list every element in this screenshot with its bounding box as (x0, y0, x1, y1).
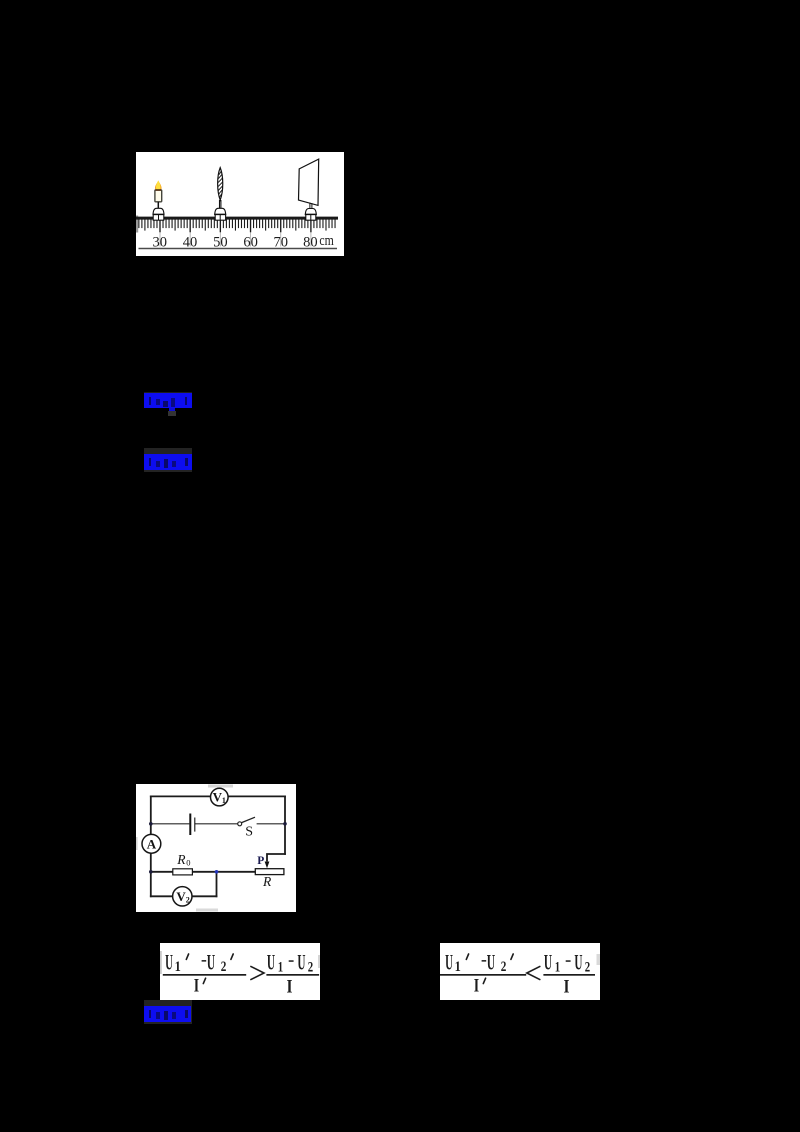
svg-text:1: 1 (222, 796, 226, 805)
svg-text:I: I (564, 977, 570, 998)
svg-text:P: P (257, 855, 264, 867)
svg-text:2: 2 (585, 959, 590, 975)
svg-text:A: A (147, 836, 157, 851)
svg-text:2: 2 (186, 895, 190, 904)
svg-text:U: U (544, 950, 552, 975)
svg-text:1: 1 (278, 959, 283, 975)
svg-text:1: 1 (175, 959, 181, 975)
svg-text:U: U (574, 950, 582, 975)
svg-text:I: I (474, 975, 479, 996)
svg-text:U: U (445, 949, 453, 974)
svg-text:U: U (207, 949, 215, 974)
svg-text:U: U (267, 950, 275, 975)
svg-text:1: 1 (455, 959, 461, 975)
svg-text:I: I (194, 975, 199, 996)
svg-text:2: 2 (308, 959, 313, 975)
svg-text:U: U (487, 949, 495, 974)
svg-text:cm: cm (319, 233, 334, 249)
svg-text:R: R (262, 874, 272, 889)
svg-text:1: 1 (555, 959, 560, 975)
svg-text:R: R (176, 852, 186, 867)
svg-text:S: S (245, 825, 253, 840)
svg-text:0: 0 (186, 858, 190, 868)
svg-text:U: U (297, 950, 305, 975)
svg-text:2: 2 (501, 959, 507, 975)
svg-text:2: 2 (221, 959, 227, 975)
svg-text:U: U (165, 949, 173, 974)
svg-text:I: I (287, 977, 293, 998)
